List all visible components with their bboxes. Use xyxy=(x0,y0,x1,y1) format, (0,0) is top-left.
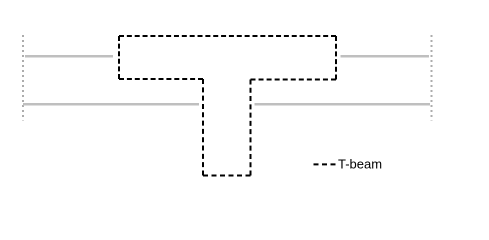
right slab bottom line xyxy=(255,103,431,106)
T-beam flange left edge xyxy=(118,36,120,79)
left slab top line xyxy=(25,55,113,58)
T-beam flange bottom left edge xyxy=(119,78,203,80)
T-beam flange bottom right edge xyxy=(251,79,337,81)
T-beam flange top edge xyxy=(119,35,336,37)
right slab top line xyxy=(341,55,430,58)
legend key line (dashed) xyxy=(314,163,336,165)
left slab edge (dotted vertical) xyxy=(22,35,24,121)
svg-text:T-beam: T-beam xyxy=(338,157,382,172)
right slab edge (dotted vertical) xyxy=(431,35,433,121)
left slab bottom line xyxy=(23,103,199,106)
T-beam flange right edge xyxy=(335,36,337,80)
T-beam web right edge xyxy=(250,80,252,176)
T-beam web bottom edge xyxy=(203,175,251,177)
T-beam web left edge xyxy=(202,79,204,176)
